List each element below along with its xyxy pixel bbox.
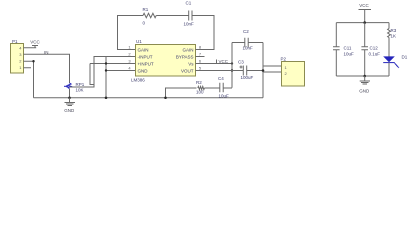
ground rail (bottom of main circuit) [34,97,264,99]
wire mid branch [364,23,366,76]
svg-text:C11: C11 [344,46,352,51]
svg-text:U1: U1 [136,39,142,44]
wire IN net: P1.3 to pot top [31,54,70,83]
wire pot bottom to rail [69,89,71,98]
capacitor C4 [220,83,223,93]
svg-text:100: 100 [196,90,204,95]
svg-text:1K: 1K [391,34,397,39]
svg-text:100uF: 100uF [241,75,254,80]
svg-text:GND: GND [64,108,75,113]
wire P2 pin2 stub [263,71,281,73]
junction VOUT/P2 [262,69,265,72]
svg-text:10uF: 10uF [219,94,230,99]
capacitor C1 [189,11,192,21]
svg-text:C2: C2 [243,29,249,34]
wire VOUT pin 5 [196,70,244,72]
power VCC (left) [32,46,38,48]
svg-text:GAIN: GAIN [182,47,193,52]
wire C2/C4 vertical [231,43,233,88]
svg-text:VCC: VCC [359,3,369,8]
ground GND (right) [360,76,370,84]
wire Vs pin 6 to +VCC [196,63,233,65]
capacitor C12 [361,47,368,50]
svg-text:3: 3 [128,59,131,64]
wire right branch top [388,23,390,29]
svg-text:4: 4 [128,66,131,71]
svg-text:P2: P2 [281,57,287,62]
wire pot wiper to -INPUT [70,57,136,88]
junction VOUT crossing [231,69,233,71]
svg-text:0.1uF: 0.1uF [369,52,381,57]
LED D1 [383,56,395,62]
wire C4 up to Vs node [223,87,232,89]
wire R2 to C4 [204,87,219,89]
junction vertical/rail [105,96,108,99]
svg-text:C4: C4 [218,76,224,81]
svg-text:R1: R1 [143,7,149,12]
wire C1 to pin 8 [192,16,214,50]
svg-text:6: 6 [199,59,202,64]
junction GND/bottom rail [363,75,366,78]
junction Vs/C2 vertical [231,62,233,64]
svg-text:D1: D1 [402,55,408,60]
junction GND pin vertical [105,69,107,71]
svg-text:10nF: 10nF [243,46,254,51]
power +VCC bar [216,60,218,64]
svg-text:10nF: 10nF [184,22,195,27]
connector P2 [282,62,305,87]
resistor R2 [198,86,205,89]
ground GND (left) [65,98,76,106]
svg-text:-INPUT: -INPUT [138,54,153,59]
svg-text:Vs: Vs [188,61,194,66]
pin 7 stub [196,56,205,58]
bottom rail (right circuit) [336,75,389,77]
wire R1 to C1 [156,15,189,17]
svg-text:5: 5 [199,66,202,71]
op-amp U1 LM386 [136,45,196,77]
svg-text:C12: C12 [370,46,379,51]
junction at P1.2 corner [32,60,34,62]
P1 pin 2 stub [24,60,34,62]
svg-text:1: 1 [128,45,131,50]
P1 pin 4 stub [24,47,37,49]
junction rail/R2 [164,96,167,99]
junction VCC/top rail [363,21,366,24]
top rail [336,22,389,24]
wire input ground vertical [105,57,107,98]
svg-text:LM386: LM386 [131,77,145,82]
svg-text:10K: 10K [76,88,84,93]
capacitor C2 [232,38,263,47]
svg-text:GND: GND [138,68,149,73]
svg-text:R2: R2 [196,80,202,85]
connector P1 [11,44,24,74]
wire C3 to P2 vertical [247,70,263,72]
svg-text:7: 7 [199,52,202,57]
wire gain loop: pin1 up [118,16,144,50]
svg-text:8: 8 [199,45,202,50]
svg-text:GND: GND [359,88,370,93]
wire left branch [335,23,337,76]
svg-text:10uF: 10uF [344,52,355,57]
wire LED to bottom rail [388,63,390,76]
wire +INPUT net [90,64,135,85]
junction +IN vertical [105,62,107,64]
wire R3 to LED [388,38,390,57]
svg-text:RP1: RP1 [76,82,85,87]
svg-text:R3: R3 [391,28,397,33]
capacitor C3 (polarized) [243,66,246,76]
svg-text:IN: IN [44,50,49,55]
svg-text:2: 2 [128,52,131,57]
branch R2/C4 to rail [166,88,197,98]
svg-text:C1: C1 [186,1,192,6]
resistor R3 [388,29,391,38]
svg-text:C3: C3 [238,60,244,65]
svg-text:VCC: VCC [219,59,229,64]
potentiometer RP1 [68,83,71,89]
junction pot/rail [68,96,71,99]
wire U1 GND pin [106,70,135,72]
resistor R1 [143,13,156,17]
wire P1.2 down to ground rail [33,61,35,98]
svg-text:VOUT: VOUT [181,68,194,73]
wire P2 pin1 stub [263,65,281,67]
P1 pin 3 stub [24,53,32,55]
capacitor C11 [333,47,340,50]
svg-text:P1: P1 [12,39,18,44]
svg-text:+INPUT: +INPUT [138,61,154,66]
svg-text:0: 0 [143,21,146,26]
svg-text:VCC: VCC [30,39,40,44]
wire P2 vertical [262,43,264,98]
svg-text:GAIN: GAIN [138,47,149,52]
P1 pin 1 stub [24,67,32,69]
svg-text:BYPASS: BYPASS [176,54,194,59]
